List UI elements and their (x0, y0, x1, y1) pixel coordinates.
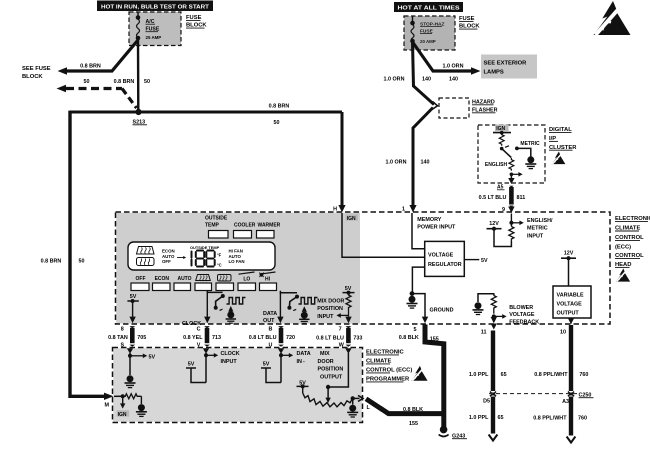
svg-text:5V: 5V (481, 258, 488, 264)
terminal 5 / wire 0.8 BLK 155 to G243 (399, 325, 444, 428)
pot wiper node to terminal L and ground (351, 395, 364, 404)
svg-text:7: 7 (339, 327, 342, 333)
svg-text:AUTO: AUTO (162, 254, 175, 259)
svg-text:50: 50 (144, 79, 150, 85)
svg-text:IGN: IGN (118, 412, 127, 418)
display fan words (229, 249, 245, 265)
digital cluster dashed box (478, 125, 545, 183)
wire 5V output (464, 258, 488, 264)
data pulse symbol (299, 298, 318, 305)
connector C250 dashed line (489, 392, 594, 398)
svg-text:GROUND: GROUND (430, 308, 454, 314)
svg-text:HI: HI (265, 277, 271, 283)
label SEE FUSE BLOCK (22, 66, 51, 80)
clock pulse symbol (227, 298, 246, 305)
label DIGITAL I/P CLUSTER (549, 127, 577, 151)
switch english/metric (485, 141, 540, 168)
svg-text:1.0 PPL: 1.0 PPL (469, 415, 489, 421)
panel buttons top row (209, 231, 275, 239)
banner HOT IN RUN, BULB TEST OR START (97, 1, 213, 12)
ESD symbol (page corner) (594, 1, 631, 35)
wire fuse to S213 vertical 0.8 BRN 50 (114, 40, 150, 110)
svg-text:H: H (333, 207, 337, 213)
terminal W mix door position output (318, 348, 352, 403)
svg-text:METRIC: METRIC (520, 141, 540, 147)
label MEMORY POWER INPUT (417, 217, 456, 230)
panel button captions OUTSIDE TEMP / COOLER / WARMER (205, 216, 281, 229)
svg-text:C: C (197, 327, 201, 333)
fuse F2 STOP-HAZ FUSE 20 AMP (410, 16, 444, 44)
wire hazard tap down to terminal 1 1.0 ORN 140 (386, 108, 433, 213)
ground (terminal S) (125, 375, 136, 387)
svg-text:ECON: ECON (155, 276, 170, 282)
wire to terminal A5 (497, 174, 515, 190)
data out switch (263, 291, 299, 324)
svg-text:50: 50 (84, 79, 90, 85)
svg-text:POSITION: POSITION (317, 306, 343, 312)
wire block to terminal 10 (568, 318, 574, 324)
display 188 digits (192, 251, 215, 267)
svg-text:OUTPUT: OUTPUT (557, 310, 580, 316)
svg-text:1.0 ORN: 1.0 ORN (443, 64, 464, 70)
svg-text:140: 140 (449, 77, 458, 83)
svg-text:FEEDBACK: FEEDBACK (509, 320, 539, 326)
programmer gray background (113, 348, 362, 422)
svg-text:1.0 PPL: 1.0 PPL (469, 372, 489, 378)
wire bus S213 left + right 0.8 BRN 50 (70, 104, 342, 127)
svg-text:0.8 LT BLU: 0.8 LT BLU (316, 336, 344, 342)
terminal 7 / wire 0.8 LT BLU 733 / terminal W (316, 326, 362, 348)
svg-text:VOLTAGE: VOLTAGE (557, 301, 583, 307)
node with right arrow (510, 172, 523, 177)
panel lower captions (136, 272, 276, 283)
svg-text:(ECC): (ECC) (615, 244, 631, 250)
svg-text:BLOWER: BLOWER (509, 305, 533, 311)
thick wire terminal L to G243 0.8 BLK 155 (366, 399, 444, 427)
resistor R-cluster upper (499, 133, 504, 146)
wire branch to SEE EXTERIOR LAMPS 1.0 ORN 140 (413, 42, 481, 83)
fuse F1 A/C FUSE 25 AMP (136, 12, 162, 40)
svg-text:REGULATOR: REGULATOR (428, 262, 462, 268)
wire dashed arrow to fuse block (57, 85, 137, 108)
svg-text:OFF: OFF (162, 259, 171, 264)
wire fuse down to hazard flasher tap 1.0 ORN 140 (384, 42, 438, 110)
svg-text:MEMORY: MEMORY (417, 217, 441, 223)
svg-text:°C: °C (217, 263, 222, 268)
label ELECTRONIC CLIMATE CONTROL (ECC) CONTROL HEAD (615, 216, 650, 268)
svg-text:MIX: MIX (320, 351, 330, 357)
svg-text:INPUT: INPUT (527, 233, 544, 239)
resistor (english/metric pull-up) (509, 227, 514, 242)
label IGN (cluster) (495, 125, 509, 133)
svg-text:VOLTAGE: VOLTAGE (428, 252, 454, 258)
ground (pot) (347, 405, 358, 417)
wire terminal 1 to voltage regulator (412, 213, 425, 249)
display defrost icon upper (137, 247, 155, 255)
terminal C / wire 0.8 YEL 713 / terminal V (183, 326, 221, 348)
svg-text:POWER INPUT: POWER INPUT (417, 224, 456, 230)
svg-text:25 AMP: 25 AMP (146, 35, 162, 40)
svg-text:POSITION: POSITION (318, 367, 344, 373)
ESD symbol (programmer) (411, 366, 427, 381)
svg-text:COOLER: COOLER (234, 223, 256, 229)
svg-text:0.8 BRN: 0.8 BRN (269, 104, 290, 110)
svg-text:50: 50 (79, 259, 85, 265)
fuse block (A/C fuse) dashed box (129, 12, 181, 46)
ground (metric) (525, 156, 536, 168)
svg-text:0.8 YEL: 0.8 YEL (183, 335, 203, 341)
svg-text:155: 155 (409, 421, 418, 427)
panel buttons bottom row (131, 283, 277, 291)
svg-text:760: 760 (579, 372, 588, 378)
svg-text:SEE EXTERIOR: SEE EXTERIOR (484, 61, 528, 67)
svg-text:WARMER: WARMER (258, 223, 281, 229)
variable voltage output block (553, 286, 591, 318)
wire left trunk down to terminal M 0.8 BRN 50 (41, 111, 114, 400)
svg-text:0.8 PPL/WHT: 0.8 PPL/WHT (533, 416, 567, 422)
svg-text:0.8 BLK: 0.8 BLK (403, 407, 423, 413)
terminal 11 / wire 1.0 PPL 65 (469, 324, 507, 441)
svg-text:713: 713 (212, 335, 221, 341)
svg-text:OUTPUT: OUTPUT (320, 374, 343, 380)
svg-text:DATA: DATA (263, 311, 277, 317)
display defrost icon lower (137, 258, 155, 266)
svg-text:ENGLISH: ENGLISH (485, 162, 508, 168)
svg-text:0.8 TAN: 0.8 TAN (108, 335, 128, 341)
svg-text:AUTO: AUTO (229, 254, 242, 259)
svg-text:5V: 5V (188, 362, 195, 368)
svg-text:ENGLISH/: ENGLISH/ (527, 218, 553, 224)
svg-text:VOLTAGE: VOLTAGE (509, 312, 535, 318)
ground (blower feedback) (473, 302, 484, 314)
wire to 12V (487, 221, 512, 247)
voltage regulator U1 (425, 241, 465, 276)
svg-text:INPUT: INPUT (221, 359, 238, 365)
fuse block (STOP-HAZ) dashed box (404, 16, 455, 50)
svg-text:705: 705 (137, 335, 146, 341)
svg-text:50: 50 (274, 120, 280, 126)
svg-text:M: M (105, 403, 110, 409)
terminal V clock input (186, 348, 240, 382)
svg-text:ECON: ECON (162, 249, 175, 254)
svg-text:65: 65 (498, 415, 504, 421)
svg-text:A3: A3 (562, 399, 569, 405)
label SEE EXTERIOR LAMPS (481, 55, 537, 79)
svg-text:5V: 5V (263, 362, 270, 368)
svg-text:DATA: DATA (297, 351, 311, 357)
wire drop to terminal H (333, 112, 346, 213)
svg-text:DOOR: DOOR (318, 359, 334, 365)
12V feed to variable voltage output (561, 251, 576, 287)
ground (terminal M) (136, 404, 147, 416)
wire branch to SEE FUSE BLOCK (solid arrow) (58, 40, 139, 85)
svg-text:BLOCK: BLOCK (22, 74, 43, 80)
potentiometer resistive element (303, 393, 353, 407)
ground G243 (439, 426, 467, 439)
svg-text:8: 8 (121, 327, 124, 333)
svg-text:5: 5 (414, 327, 417, 333)
svg-text:OFF: OFF (136, 276, 146, 282)
5V source at terminal 8 (127, 294, 138, 323)
clock output switch (182, 291, 225, 327)
ESD symbol (cluster) (552, 152, 566, 165)
svg-text:0.8 BRN: 0.8 BRN (41, 259, 62, 265)
svg-text:0.8 BRN: 0.8 BRN (114, 79, 135, 85)
M input node IGN + resistor to ground (114, 394, 141, 418)
programmer dashed box (113, 348, 363, 423)
svg-text:733: 733 (353, 336, 362, 342)
display window (128, 242, 275, 270)
svg-text:B: B (268, 327, 272, 333)
svg-text:TEMP: TEMP (205, 223, 220, 229)
ground (regulator) (407, 296, 418, 308)
svg-text:0.8 BRN: 0.8 BRN (80, 64, 101, 70)
svg-text:OUT: OUT (263, 318, 275, 324)
label IGN (control head terminal H) (346, 214, 359, 222)
control head panel gray background (116, 213, 360, 324)
terminal 8 / wire 0.8 TAN 705 / terminal S (108, 326, 146, 348)
hazard flasher dashed box (439, 98, 498, 118)
svg-text:720: 720 (286, 335, 295, 341)
caption defrost icon 2 (218, 275, 232, 282)
svg-text:0.8 BLK: 0.8 BLK (399, 335, 419, 341)
svg-text:10: 10 (560, 330, 566, 336)
label FUSE BLOCK (right) (459, 16, 480, 30)
svg-text:760: 760 (578, 416, 587, 422)
svg-text:12V: 12V (564, 251, 574, 257)
svg-text:1.0 ORN: 1.0 ORN (384, 77, 405, 83)
clock pulse ground (226, 306, 236, 323)
wire H to voltage regulator (342, 213, 425, 257)
svg-text:CLOCK: CLOCK (221, 351, 240, 357)
resistor R-cluster lower (509, 158, 514, 171)
svg-text:AUTO: AUTO (177, 276, 191, 282)
label FUSE BLOCK (left) (186, 15, 207, 29)
svg-text:LAMPS: LAMPS (484, 70, 504, 76)
terminal S input with 5V and ground (127, 348, 156, 375)
english/metric input node at terminal 9 (509, 214, 553, 240)
svg-text:11: 11 (481, 330, 487, 336)
svg-text:VARIABLE: VARIABLE (557, 292, 585, 298)
svg-text:IGN: IGN (347, 216, 356, 222)
wire regulator ground to terminal 5 (410, 267, 454, 323)
svg-text:LO: LO (243, 277, 250, 283)
svg-text:D5: D5 (483, 398, 490, 404)
svg-text:0.5 LT BLU: 0.5 LT BLU (479, 195, 507, 201)
terminal U data in (261, 348, 311, 382)
wire stub 0.5 LT BLU 811 to terminal 9 (479, 186, 526, 213)
svg-text:155: 155 (430, 337, 439, 343)
svg-text:INPUT: INPUT (317, 314, 334, 320)
svg-text:OUTSIDE: OUTSIDE (205, 216, 228, 222)
ESD symbol (control head) (616, 269, 630, 282)
svg-text:HI FAN: HI FAN (229, 249, 243, 254)
svg-text:°F: °F (217, 253, 222, 258)
svg-text:65: 65 (501, 372, 507, 378)
svg-text:LO FAN: LO FAN (229, 259, 245, 264)
svg-text:1.0 ORN: 1.0 ORN (386, 160, 407, 166)
svg-text:20 AMP: 20 AMP (420, 39, 436, 44)
terminal 10 / wire 0.8 PPL/WHT 760 (533, 325, 588, 443)
caption defrost icon 1 (196, 275, 211, 282)
svg-text:140: 140 (421, 160, 430, 166)
label ELECTRONIC CLIMATE CONTROL (ECC) PROGRAMMER (366, 350, 412, 383)
svg-text:IN -: IN - (297, 359, 305, 365)
data pulse ground (299, 306, 309, 323)
svg-text:140: 140 (422, 77, 431, 83)
banner HOT AT ALL TIMES (394, 2, 463, 12)
potentiometer 5V source (297, 381, 309, 394)
svg-text:0.8 LT BLU: 0.8 LT BLU (249, 335, 277, 341)
svg-text:811: 811 (517, 195, 526, 201)
svg-text:HOT IN RUN, BULB TEST OR START: HOT IN RUN, BULB TEST OR START (101, 4, 209, 10)
blower voltage feedback bridge (478, 294, 539, 326)
svg-text:OUTSIDE TEMP: OUTSIDE TEMP (190, 245, 220, 250)
svg-text:12V: 12V (489, 221, 499, 227)
svg-text:5V: 5V (149, 354, 156, 360)
mix door position input resistor 5V (317, 286, 354, 323)
wire metric contact to ground (517, 148, 531, 157)
ignition feed bar (493, 131, 511, 135)
svg-text:METRIC: METRIC (527, 226, 548, 232)
svg-text:SEE FUSE: SEE FUSE (22, 66, 51, 72)
splice S213 (133, 109, 148, 126)
svg-text:0.8 PPL/WHT: 0.8 PPL/WHT (534, 372, 568, 378)
display mode words (162, 249, 186, 265)
terminal B / wire 0.8 LT BLU 720 / terminal U (249, 326, 295, 348)
svg-text:MIX DOOR: MIX DOOR (317, 298, 344, 304)
svg-text:HOT AT ALL TIMES: HOT AT ALL TIMES (398, 6, 460, 12)
control head dashed box (116, 212, 611, 324)
